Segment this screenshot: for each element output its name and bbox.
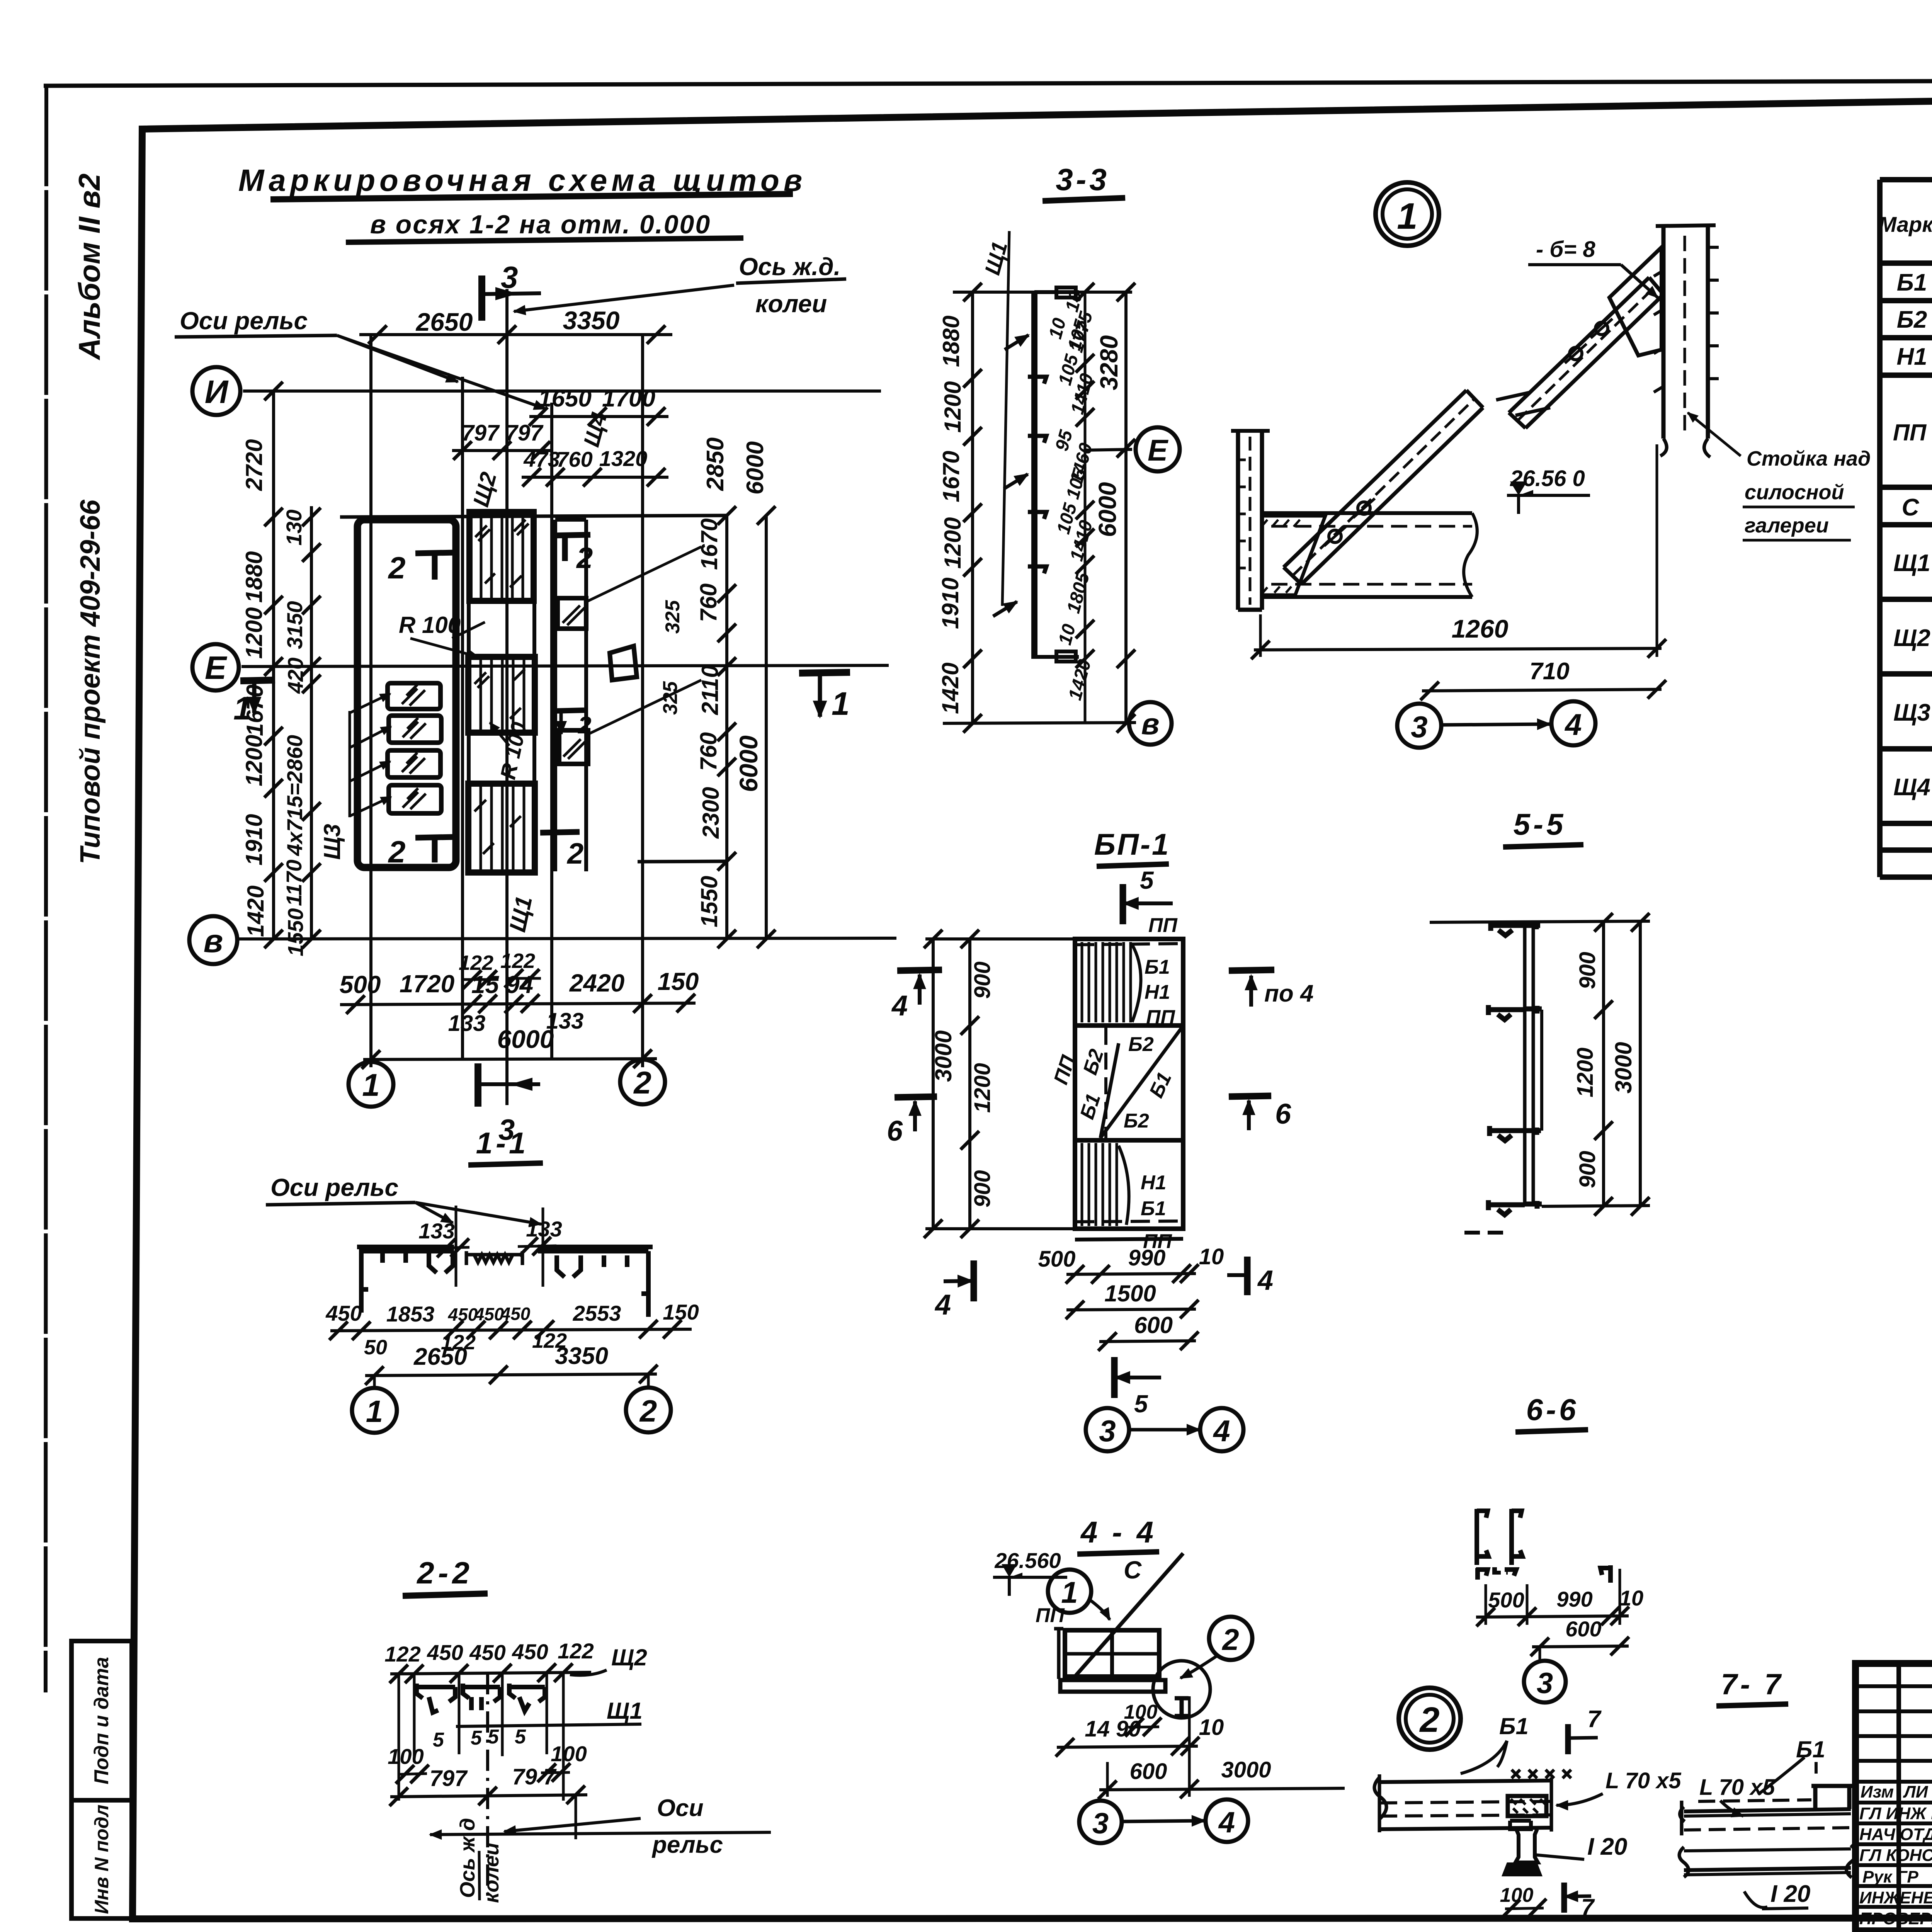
central panel strip outline: [469, 511, 534, 872]
dim 100: [1124, 1701, 1162, 1736]
svg-text:Б1: Б1: [1796, 1736, 1825, 1762]
svg-text:ПП: ПП: [1893, 420, 1927, 446]
svg-text:Щ1: Щ1: [504, 894, 537, 934]
svg-text:2720: 2720: [241, 439, 267, 491]
panel guide slant line: [1002, 231, 1009, 606]
svg-text:1200: 1200: [970, 1063, 995, 1113]
table grid horizontals: [1880, 180, 1932, 877]
svg-text:325: 325: [662, 600, 684, 634]
clip angle dark: [1508, 1796, 1546, 1816]
svg-text:990: 990: [1556, 1587, 1592, 1611]
mid panel dashed: [1104, 1028, 1107, 1138]
G_PLAN: [175, 253, 896, 1146]
label Б1: [1461, 1713, 1529, 1774]
dim 600: [1098, 1312, 1199, 1351]
svg-text:14 90: 14 90: [1085, 1716, 1141, 1742]
svg-text:1200: 1200: [241, 735, 267, 786]
view bubble 3: [1524, 1647, 1566, 1702]
section 1-1 title: [468, 1126, 543, 1165]
title block outline: [1855, 1663, 1932, 1931]
label R 100: [399, 612, 485, 657]
right long strip: [555, 520, 586, 871]
svg-text:6000: 6000: [742, 441, 769, 495]
svg-text:122: 122: [500, 949, 535, 973]
svg-text:3280: 3280: [1095, 335, 1123, 390]
view bubbles 3 and 4: [1397, 701, 1595, 748]
svg-text:Щ4: Щ4: [1893, 774, 1930, 801]
section 5-5 title: [1503, 807, 1583, 847]
svg-text:7- 7: 7- 7: [1721, 1668, 1784, 1701]
clip angle on beam: [1811, 1786, 1853, 1809]
mark 4 bottom left: [934, 1260, 974, 1321]
note Стойка над силосной галереи: [1688, 413, 1871, 540]
left channel column: [1231, 431, 1270, 610]
plan bottom edge line right: [638, 861, 727, 862]
vertical guides: [399, 1673, 563, 1801]
rw track axis line: [505, 289, 509, 1105]
axis bubble В: [189, 916, 237, 964]
svg-text:1-1: 1-1: [476, 1126, 529, 1160]
1-1 axis bubble 1: [352, 1376, 397, 1433]
small dash pair: [1492, 1571, 1508, 1575]
svg-text:100: 100: [388, 1744, 423, 1769]
svg-text:7: 7: [1587, 1706, 1602, 1733]
svg-text:Н1: Н1: [1896, 344, 1927, 370]
svg-text:1720: 1720: [400, 970, 454, 998]
svg-text:Ось ж д: Ось ж д: [456, 1818, 479, 1898]
svg-text:1420: 1420: [1065, 657, 1095, 702]
svg-text:1880: 1880: [938, 316, 964, 367]
svg-text:Б2: Б2: [1128, 1033, 1154, 1056]
3-3 outer chain: [1094, 283, 1135, 733]
right dim chain inner: [718, 506, 736, 948]
svg-text:2: 2: [388, 551, 406, 585]
svg-text:1550: 1550: [696, 876, 722, 927]
level mark 26.560: [1507, 466, 1590, 514]
mark 4 bottom right: [1227, 1257, 1273, 1296]
svg-text:450: 450: [469, 1640, 505, 1665]
svg-text:2650: 2650: [413, 1344, 467, 1370]
dim 710: [1420, 658, 1666, 700]
mark 1 below E axis left: [233, 680, 275, 726]
label L70x5: [1699, 1775, 1775, 1816]
svg-text:Щ1: Щ1: [607, 1698, 643, 1724]
svg-text:Щ3: Щ3: [319, 824, 345, 860]
section mark 5 bottom: [1114, 1357, 1161, 1418]
mark T2 lower right: [540, 832, 583, 870]
svg-text:ГЛ ИНЖ ПР: ГЛ ИНЖ ПР: [1859, 1804, 1932, 1823]
svg-text:БП-1: БП-1: [1094, 827, 1170, 861]
axis bubble Е right: [1085, 427, 1180, 471]
svg-text:500: 500: [1488, 1588, 1524, 1612]
mark 2T top in rect: [388, 551, 456, 585]
svg-text:Щ1: Щ1: [980, 239, 1012, 277]
top extension line: [1430, 921, 1650, 922]
beam top lines: [1680, 1800, 1851, 1835]
svg-text:Подп и дата: Подп и дата: [90, 1657, 113, 1784]
svg-text:Б1: Б1: [1897, 269, 1927, 296]
svg-text:Б1: Б1: [1141, 1197, 1166, 1220]
bottom hatched area: [1082, 1143, 1129, 1226]
panel main vertical: [1031, 291, 1037, 659]
left header row texts: [1861, 1782, 1932, 1801]
svg-text:1200: 1200: [940, 517, 966, 569]
svg-text:6-6: 6-6: [1526, 1393, 1579, 1427]
svg-text:ЛИ Т: ЛИ Т: [1903, 1782, 1932, 1801]
svg-text:НАЧ ОТД: НАЧ ОТД: [1859, 1825, 1932, 1844]
svg-text:1200: 1200: [241, 607, 267, 659]
dim 133 133: [448, 1009, 584, 1036]
svg-text:10: 10: [1199, 1715, 1224, 1740]
svg-text:15 94: 15 94: [471, 971, 533, 998]
G_TABLE: [1879, 134, 1932, 877]
svg-text:1: 1: [832, 685, 850, 722]
plan top edge line: [340, 515, 727, 517]
svg-text:79 7: 79 7: [512, 1764, 557, 1789]
sub labels 50 122 122: [364, 1329, 567, 1359]
left channel piece plan: [357, 1247, 454, 1313]
svg-text:3000: 3000: [930, 1031, 956, 1082]
svg-text:4: 4: [1564, 707, 1582, 742]
hatched window 2: [350, 716, 441, 748]
svg-text:С: С: [1124, 1556, 1142, 1584]
3-3 left dim chain: [963, 283, 982, 733]
flat bar: [1060, 1680, 1165, 1692]
svg-text:2553: 2553: [573, 1301, 621, 1325]
svg-text:4: 4: [1213, 1414, 1230, 1448]
svg-text:1670: 1670: [938, 451, 964, 502]
beam top flange lines: [1374, 1774, 1551, 1832]
hatched window 3: [350, 750, 440, 781]
1-1 dim row 450 1853 450 450 450 2553 150: [325, 1300, 699, 1340]
svg-text:1853: 1853: [386, 1302, 435, 1326]
svg-text:2: 2: [566, 837, 583, 870]
label I20: [1744, 1881, 1810, 1909]
svg-text:Н1: Н1: [1145, 981, 1170, 1003]
title underline 1: [270, 194, 793, 199]
row Щ3: [1893, 682, 1932, 750]
svg-text:2-2: 2-2: [416, 1556, 473, 1590]
detail bubble 2: [1180, 1617, 1252, 1678]
section 2-2 title: [403, 1556, 488, 1596]
6-6 dim 600: [1531, 1617, 1629, 1656]
bottom strip: [1075, 1239, 1183, 1240]
section mark 3 bottom: [478, 1063, 540, 1146]
1-1 dim 2650 3350: [365, 1343, 658, 1385]
dim 797 797: [452, 420, 553, 460]
svg-text:R 100: R 100: [399, 612, 461, 638]
svg-text:I 20: I 20: [1770, 1881, 1810, 1907]
bracket level 1: [1491, 921, 1540, 935]
оси рельс arrow line: [430, 1795, 771, 1839]
svg-text:325: 325: [659, 681, 682, 715]
svg-text:1: 1: [362, 1068, 380, 1103]
channel top left: [1477, 1509, 1488, 1565]
svg-text:рельс: рельс: [651, 1832, 723, 1858]
svg-text:Щ1: Щ1: [1893, 550, 1930, 577]
svg-text:2110: 2110: [697, 665, 723, 715]
3-3 left chain labels: [937, 316, 966, 714]
small I mark: [1175, 1698, 1189, 1716]
svg-text:5: 5: [1134, 1390, 1148, 1418]
svg-text:3150: 3150: [282, 601, 307, 649]
svg-text:Щ2: Щ2: [1893, 625, 1930, 651]
panel bottom cap: [1034, 651, 1079, 662]
svg-text:4: 4: [1218, 1806, 1235, 1839]
lower gusset hatch: [1262, 516, 1325, 595]
channel profile right: [509, 1684, 545, 1711]
G_S11: [266, 1126, 699, 1433]
100 labels: [388, 1742, 587, 1784]
hatched window 4: [350, 785, 441, 816]
svg-text:10: 10: [1054, 622, 1080, 647]
section mark 7 top: [1568, 1706, 1602, 1754]
svg-text:в: в: [204, 923, 223, 959]
dim 1490 10: [1056, 1715, 1224, 1757]
bottom dims 500 990 10: [1038, 1244, 1224, 1284]
label R 100 rotated: [490, 720, 531, 781]
dim 797 797: [389, 1764, 587, 1806]
6-6 dims 500 990 10: [1476, 1569, 1643, 1626]
hatched square right 1: [558, 547, 701, 629]
133 dim right: [518, 1217, 562, 1256]
upper diagonal brace: [1509, 277, 1663, 428]
title underline 2: [346, 238, 743, 242]
view bubbles 3 4: [1079, 1799, 1248, 1843]
diagonal line: [1071, 1553, 1183, 1681]
svg-text:ГЛ КОНС: ГЛ КОНС: [1859, 1846, 1932, 1865]
box: [1065, 1630, 1159, 1677]
svg-text:1: 1: [233, 690, 252, 726]
dim 6000 bottom: [362, 1025, 657, 1069]
svg-text:797: 797: [462, 420, 500, 446]
axis bubble 1: [349, 1062, 393, 1107]
table grid verticals: [1880, 180, 1932, 877]
svg-text:26.560: 26.560: [994, 1548, 1061, 1573]
mid panel labels: [1049, 1033, 1176, 1132]
svg-text:4: 4: [1257, 1265, 1273, 1296]
G_BP1: [887, 827, 1313, 1451]
svg-text:6000: 6000: [1094, 482, 1121, 537]
left dim chain line second: [310, 506, 313, 939]
detail bubble 2: [1399, 1688, 1461, 1750]
second chain labels: [282, 510, 308, 956]
svg-text:6: 6: [887, 1115, 903, 1147]
row Б1: [1897, 269, 1932, 296]
3-3 left top extension: [953, 291, 1132, 294]
G_S22: [384, 1556, 771, 1903]
svg-text:450: 450: [500, 1304, 531, 1324]
panel outline: [1075, 939, 1183, 1229]
bottom extension line: [1542, 1206, 1650, 1206]
svg-text:760: 760: [696, 583, 721, 622]
mark 4 top left: [891, 970, 942, 1022]
svg-text:Ось ж.д.: Ось ж.д.: [739, 253, 840, 281]
svg-text:- б= 8: - б= 8: [1536, 237, 1595, 262]
G_S33: [937, 162, 1180, 745]
bracket hooks: [1028, 377, 1046, 573]
svg-text:ПП: ПП: [1036, 1604, 1065, 1627]
left dim chain line inner: [272, 391, 275, 939]
channel profile mid: [463, 1684, 500, 1710]
row Щ1: [1893, 532, 1932, 602]
svg-text:600: 600: [1565, 1617, 1601, 1641]
label Б1: [1758, 1736, 1825, 1794]
Оси рельс label: [266, 1173, 541, 1224]
axis bubble Е: [192, 644, 239, 690]
БП-1 title: [1094, 827, 1170, 866]
svg-text:2: 2: [388, 835, 406, 869]
post verticals: [1525, 922, 1533, 1206]
svg-text:1260: 1260: [1452, 614, 1509, 643]
row С: [1902, 494, 1932, 521]
svg-text:5: 5: [471, 1727, 482, 1749]
right column stanchion: [1654, 225, 1719, 457]
G_TITLE: [238, 163, 806, 242]
label I20: [1534, 1833, 1627, 1860]
dim 600 3000: [1098, 1696, 1345, 1799]
detail bubble 1: [1376, 182, 1439, 246]
rw axis dashed: [486, 1673, 489, 1901]
section 7-7 title: [1716, 1668, 1788, 1706]
dim 1650 1700: [529, 385, 668, 426]
svg-text:500: 500: [1038, 1247, 1076, 1272]
G_S44: [993, 1515, 1345, 1843]
bottom panel labels: [1141, 1172, 1172, 1253]
svg-text:Н1: Н1: [1141, 1172, 1166, 1194]
axis bubble И: [192, 367, 240, 415]
svg-text:I 20: I 20: [1587, 1833, 1627, 1860]
svg-text:6: 6: [1275, 1098, 1291, 1130]
Оси рельс label right: [651, 1795, 723, 1858]
section mark 5 top: [1123, 866, 1173, 924]
2-2 top dims 122 450 450 450 122: [384, 1639, 594, 1683]
outer dim 3000: [1611, 913, 1650, 1216]
grid line axis 2: [641, 333, 644, 1067]
bracket bottom left: [1476, 1568, 1516, 1580]
mark T1 right of plan: [799, 672, 850, 722]
svg-text:Б1: Б1: [1499, 1713, 1529, 1739]
svg-text:450: 450: [325, 1301, 362, 1325]
dim 473 760 1320: [522, 446, 668, 486]
svg-text:1420: 1420: [937, 663, 963, 714]
svg-text:450: 450: [474, 1304, 504, 1324]
svg-text:150: 150: [658, 968, 699, 995]
svg-text:990: 990: [1128, 1245, 1166, 1270]
svg-text:Б2: Б2: [1897, 306, 1927, 333]
svg-text:2: 2: [639, 1394, 657, 1428]
mark 6 left: [887, 1097, 937, 1147]
middle channel piece plan: [466, 1251, 522, 1265]
right chain labels: [696, 519, 724, 927]
svg-text:1200: 1200: [1573, 1048, 1598, 1097]
svg-text:450: 450: [512, 1639, 548, 1664]
svg-text:Щ3: Щ3: [1893, 699, 1930, 726]
label Ось ж.д. колеи: [514, 253, 846, 318]
right dim chain outer 6000: [734, 506, 776, 948]
panel divider 2: [1075, 1138, 1183, 1143]
svg-text:6000: 6000: [734, 735, 763, 792]
small 5 labels: [433, 1726, 526, 1751]
svg-text:R 100: R 100: [495, 720, 531, 781]
133 dim left: [418, 1219, 469, 1257]
svg-text:1500: 1500: [1104, 1281, 1156, 1306]
svg-text:2850: 2850: [702, 437, 729, 491]
svg-text:2: 2: [633, 1065, 651, 1100]
svg-text:4: 4: [891, 990, 908, 1022]
axis bubble В right: [1129, 702, 1172, 745]
svg-text:3: 3: [1537, 1667, 1553, 1700]
svg-text:760: 760: [696, 732, 721, 771]
svg-text:10: 10: [1619, 1586, 1643, 1610]
svg-text:3350: 3350: [555, 1343, 608, 1369]
svg-text:3350: 3350: [563, 306, 620, 335]
Щ1 label: [456, 1698, 643, 1726]
beam bottom lines: [1679, 1845, 1856, 1878]
brace break marks: [1496, 392, 1550, 415]
top hatched area: [1082, 942, 1141, 1022]
svg-text:1650: 1650: [538, 385, 592, 412]
26.560 level mark: [993, 1548, 1067, 1596]
svg-text:1: 1: [1397, 196, 1417, 237]
svg-text:Стойка над: Стойка над: [1747, 447, 1871, 470]
row Щ2: [1893, 607, 1932, 676]
svg-text:900: 900: [1575, 1151, 1600, 1188]
svg-text:Б1: Б1: [1076, 1091, 1105, 1122]
view bubbles 3 4: [1086, 1408, 1243, 1451]
section 3-3 title: [1043, 162, 1125, 201]
bottom dashed edge: [1075, 1221, 1183, 1222]
svg-text:4х715=2860: 4х715=2860: [282, 735, 307, 856]
svg-text:L 70 х5: L 70 х5: [1699, 1775, 1775, 1800]
dim 100: [1500, 1884, 1546, 1918]
dim 1260: [1251, 444, 1666, 659]
svg-text:И: И: [205, 374, 229, 410]
svg-text:2: 2: [1221, 1622, 1239, 1656]
svg-text:1700: 1700: [602, 385, 655, 412]
outer chain 3000: [924, 930, 956, 1238]
3-3 small chain labels: [1045, 289, 1097, 702]
row Б2: [1897, 306, 1932, 333]
svg-text:3000: 3000: [1221, 1757, 1271, 1782]
svg-text:150: 150: [663, 1300, 699, 1324]
rail profile: [1502, 1821, 1543, 1876]
dim 1500: [1066, 1281, 1199, 1319]
lower diagonal brace: [1284, 390, 1483, 584]
margin stamp box Подп и дата: [71, 1641, 132, 1800]
axis bubble 2: [620, 1060, 665, 1104]
svg-text:Б1: Б1: [1145, 956, 1170, 978]
svg-text:в: в: [1141, 707, 1159, 741]
svg-text:2: 2: [578, 712, 591, 739]
slant tick arrows: [993, 335, 1029, 616]
svg-text:Щ2: Щ2: [611, 1645, 647, 1670]
svg-text:1670: 1670: [696, 519, 722, 570]
mid tie line: [1540, 1010, 1543, 1131]
bottom horizontal beam: [1262, 513, 1477, 597]
svg-text:2: 2: [576, 542, 593, 575]
mark по 4 right: [1229, 970, 1313, 1007]
rail axis stubs: [456, 1206, 543, 1287]
svg-text:3-3: 3-3: [1056, 162, 1110, 197]
left part verticals: [1899, 1663, 1932, 1931]
svg-text:600: 600: [1134, 1312, 1173, 1338]
top right chain labels 2850 6000: [702, 437, 769, 495]
svg-text:420: 420: [283, 658, 308, 694]
G_S55: [1430, 807, 1650, 1233]
skew quad detail: [610, 646, 637, 680]
svg-text:Оси рельс: Оси рельс: [180, 307, 308, 335]
